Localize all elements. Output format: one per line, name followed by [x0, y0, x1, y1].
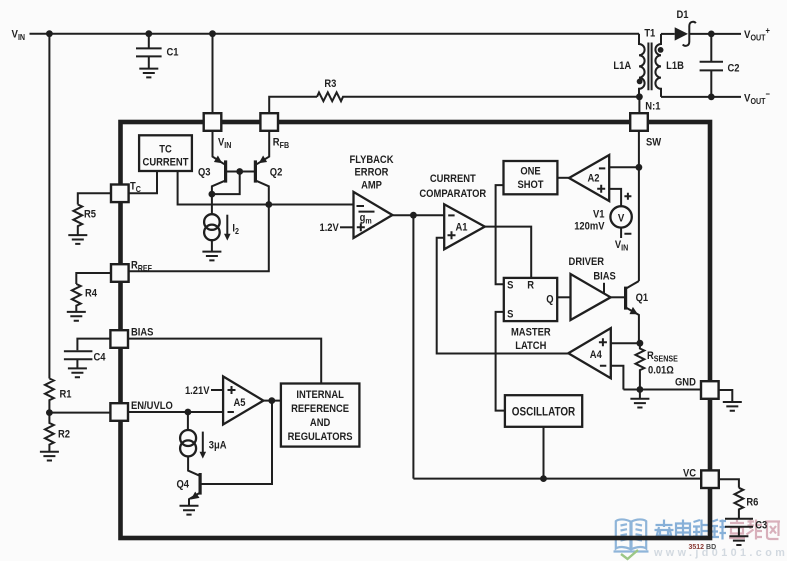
svg-text:V1: V1 — [593, 209, 605, 221]
wire left rail — [48, 34, 50, 379]
pin RREF — [111, 260, 152, 282]
wire VOUT- rail — [661, 88, 770, 106]
svg-text:120mV: 120mV — [574, 221, 604, 233]
current source I2 — [204, 194, 239, 251]
master latch box — [504, 278, 557, 352]
op-amp A4 — [568, 328, 611, 378]
ground C1 — [139, 69, 158, 78]
svg-text:S: S — [507, 309, 513, 321]
wire A4 plus input — [611, 342, 640, 344]
pin TC — [111, 181, 141, 202]
svg-text:R: R — [527, 280, 534, 292]
capacitor C4 — [64, 351, 106, 368]
pin SW — [630, 113, 661, 149]
wire latch Q to driver — [557, 296, 570, 298]
OSCILLATOR box — [505, 395, 582, 427]
svg-text:Q3: Q3 — [198, 167, 211, 179]
node VOUT+ — [708, 25, 770, 43]
wire A2 minus to SW line — [609, 164, 642, 171]
IC boundary — [121, 122, 711, 538]
svg-text:R4: R4 — [85, 288, 97, 300]
svg-text:www.jd0101.com: www.jd0101.com — [653, 547, 787, 559]
wire gm output down to VC rail — [412, 215, 414, 478]
svg-text:INTERNAL: INTERNAL — [296, 389, 343, 401]
svg-text:REGULATORS: REGULATORS — [288, 432, 353, 444]
pin VIN — [204, 113, 232, 150]
transformer T1 secondary L1B — [644, 28, 684, 113]
pin VC — [683, 468, 719, 488]
svg-text:N:1: N:1 — [645, 101, 660, 113]
resistor R6 — [735, 488, 759, 518]
svg-text:1.21V: 1.21V — [185, 385, 210, 397]
wire VC pin to R6 — [719, 479, 739, 488]
node A5 output — [263, 397, 281, 404]
svg-text:CURRENT: CURRENT — [430, 173, 477, 185]
ground Q4 — [180, 506, 199, 515]
pin BIAS — [110, 327, 153, 348]
driver bias buffer — [569, 256, 616, 320]
svg-text:V: V — [618, 212, 624, 225]
svg-text:CURRENT: CURRENT — [143, 157, 190, 169]
ground I2 — [202, 252, 221, 261]
op-amp A1 current comparator — [419, 173, 486, 249]
svg-text:BIAS: BIAS — [593, 271, 616, 283]
node 1.2V ref — [319, 223, 353, 235]
resistor R5 — [73, 205, 96, 235]
node VIN input label — [12, 28, 26, 42]
node Q3 collector / I2 — [209, 191, 216, 198]
svg-text:MASTER: MASTER — [511, 327, 551, 339]
wire VIN pin to rail — [212, 34, 214, 114]
svg-text:GND: GND — [675, 377, 696, 389]
wire RREF pin to R4 — [76, 273, 111, 284]
svg-text:R3: R3 — [324, 78, 336, 90]
svg-text:Q1: Q1 — [636, 292, 649, 304]
TC CURRENT box — [139, 135, 192, 171]
resistor RSENSE 0.01ohm — [636, 343, 678, 389]
ground C4 — [68, 368, 87, 377]
svg-text:3512 BD: 3512 BD — [689, 544, 717, 551]
wire GND pin external — [719, 390, 732, 402]
svg-text:TC: TC — [159, 144, 172, 156]
wire Q2 collector to RREF pin — [129, 205, 269, 272]
svg-text:S: S — [507, 280, 513, 292]
svg-text:R6: R6 — [746, 497, 758, 509]
node Q2 collector on gm rail — [265, 201, 272, 208]
WATERMARK — [614, 519, 787, 559]
diode D1 — [661, 9, 741, 46]
wire one shot to latch S upper — [496, 185, 504, 284]
wire A1 plus input from A4 — [437, 238, 569, 354]
wire GND rail — [623, 386, 701, 398]
resistor R2 — [45, 413, 70, 452]
svg-text:C2: C2 — [728, 63, 740, 75]
svg-text:COMPARATOR: COMPARATOR — [419, 188, 486, 200]
wire EN/UVLO rail — [49, 409, 223, 416]
svg-text:AND: AND — [310, 417, 331, 429]
svg-text:DRIVER: DRIVER — [569, 256, 605, 268]
wire VIN top rail — [30, 30, 640, 37]
svg-text:Q4: Q4 — [177, 479, 190, 491]
node Q1 emitter / RSENSE — [637, 340, 644, 347]
svg-text:LATCH: LATCH — [515, 340, 546, 352]
svg-text:0.01Ω: 0.01Ω — [648, 365, 674, 377]
transformer T1 primary L1A — [613, 34, 644, 97]
svg-text:L1B: L1B — [666, 60, 684, 72]
wire TC pin to R5 — [78, 193, 111, 204]
svg-text:REFERENCE: REFERENCE — [291, 403, 349, 415]
svg-text:R1: R1 — [60, 389, 72, 401]
wire oscillator to VC rail — [540, 427, 547, 482]
transistor Q2 — [255, 131, 282, 205]
wire oscillator to latch S lower — [496, 312, 505, 411]
svg-text:C3: C3 — [755, 520, 767, 532]
svg-text:L1A: L1A — [613, 60, 631, 72]
op-amp A2 — [569, 155, 609, 201]
resistor R4 — [72, 284, 97, 312]
wire SW internal line — [638, 131, 640, 281]
svg-text:SHOT: SHOT — [517, 179, 544, 191]
wire A1 output to latch R — [485, 227, 531, 278]
wire TC box right lead to gm rail — [178, 171, 354, 205]
svg-text:ONE: ONE — [520, 166, 540, 178]
svg-text:A5: A5 — [233, 397, 245, 409]
wire A4 minus to gnd rail — [611, 366, 624, 390]
transistor Q4 — [177, 401, 273, 506]
capacitor C1 — [136, 34, 179, 68]
wire TC box left lead to TC pin — [129, 171, 157, 193]
svg-text:T1: T1 — [644, 28, 655, 40]
pin GND — [675, 377, 719, 399]
ground R5 — [68, 235, 87, 244]
svg-text:A4: A4 — [590, 349, 602, 361]
capacitor C2 — [700, 34, 740, 97]
wire gm output — [392, 212, 444, 219]
svg-text:OSCILLATOR: OSCILLATOR — [512, 406, 576, 419]
pin RFB — [260, 113, 289, 150]
transistor Q3 — [198, 131, 226, 194]
svg-text:FLYBACK: FLYBACK — [349, 155, 394, 167]
wire A2 output to one shot — [557, 177, 569, 179]
svg-text:C1: C1 — [167, 47, 179, 59]
svg-text:ERROR: ERROR — [355, 167, 389, 179]
transformer core — [648, 43, 651, 91]
svg-text:3μA: 3μA — [209, 440, 227, 452]
svg-text:AMP: AMP — [361, 180, 382, 192]
ground R4 — [67, 312, 86, 321]
voltage source V1 120mV — [574, 193, 632, 253]
node R1/R2 junction — [46, 409, 53, 416]
svg-text:R2: R2 — [58, 429, 70, 441]
svg-text:C4: C4 — [94, 352, 106, 364]
svg-text:D1: D1 — [676, 9, 688, 21]
svg-text:Q2: Q2 — [270, 167, 283, 179]
svg-text:SW: SW — [646, 137, 661, 149]
node 1.21V ref — [185, 385, 223, 397]
svg-text:A1: A1 — [455, 222, 467, 234]
INTERNAL REFERENCE AND REGULATORS box — [281, 384, 360, 447]
node primary bottom / SW — [636, 93, 643, 113]
svg-text:1.2V: 1.2V — [319, 223, 338, 235]
label 3512 BD — [689, 544, 717, 551]
wire A2 plus to V1 — [609, 189, 621, 206]
op-amp U1 flyback error amp gm — [349, 155, 394, 238]
resistor R1 — [45, 379, 72, 413]
wire RFB pin up to R3 — [269, 97, 317, 114]
svg-text:R5: R5 — [84, 209, 96, 221]
capacitor C3 — [725, 519, 767, 536]
svg-text:A2: A2 — [587, 173, 599, 185]
svg-text:BIAS: BIAS — [131, 327, 154, 339]
pin EN/UVLO — [110, 400, 172, 420]
current source 3uA — [180, 412, 227, 476]
ground RSENSE — [630, 399, 649, 408]
svg-text:EN/UVLO: EN/UVLO — [131, 400, 173, 412]
ground R2 — [40, 452, 59, 461]
wire Q3/Q2 base tie — [212, 168, 256, 194]
wire BIAS pin to internal reference box — [128, 339, 321, 384]
ONE SHOT box — [504, 161, 558, 194]
transistor Q1 — [611, 281, 649, 343]
wire VC rail — [413, 478, 701, 480]
ground C3 — [729, 536, 748, 545]
svg-text:Q: Q — [546, 294, 553, 306]
wire BIAS pin to C4 — [77, 339, 110, 351]
resistor R3 — [317, 78, 639, 101]
op-amp A5 — [223, 376, 263, 424]
ground GND pin — [723, 402, 742, 411]
